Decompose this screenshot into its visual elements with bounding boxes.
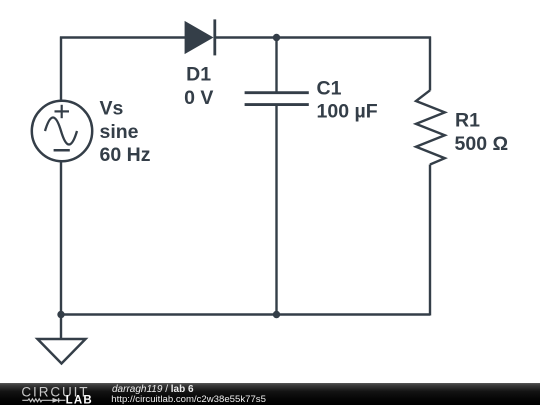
svg-text:100 µF: 100 µF [317,101,378,123]
svg-text:500 Ω: 500 Ω [455,133,509,155]
svg-text:60 Hz: 60 Hz [100,144,151,166]
label Vs value [100,97,151,166]
wire capacitor top [275,38,277,93]
wire left upper [60,37,62,102]
wire capacitor bottom [275,105,277,315]
wire top left segment [60,36,186,38]
wire ground lead [60,315,62,340]
label D1 value [184,64,213,109]
ground [38,339,86,364]
svg-text:Vs: Vs [100,97,124,119]
label R1 value [455,109,509,155]
wire right lower [429,165,431,316]
wire bottom [61,313,430,315]
node junction top (D1/C1/R1) [273,34,280,41]
resistor R1 [416,90,445,164]
svg-text:LAB: LAB [66,395,93,405]
wire left lower [60,161,62,315]
svg-text:http://circuitlab.com/c2w38e55: http://circuitlab.com/c2w38e55k77s5 [111,394,266,405]
node junction bottom left (Vs/ground) [57,311,64,318]
wire top right segment [214,36,431,38]
svg-text:D1: D1 [186,64,211,86]
svg-text:R1: R1 [455,109,480,131]
wire right upper [429,37,431,91]
svg-text:sine: sine [100,121,139,143]
node junction bottom middle (C1) [273,311,280,318]
voltage source Vs [32,101,92,161]
svg-text:C1: C1 [317,77,342,99]
diode D1 [185,19,215,55]
svg-text:0 V: 0 V [184,87,213,109]
CircuitLab logo [21,384,92,405]
label C1 value [317,77,378,122]
capacitor C1 [245,93,309,105]
